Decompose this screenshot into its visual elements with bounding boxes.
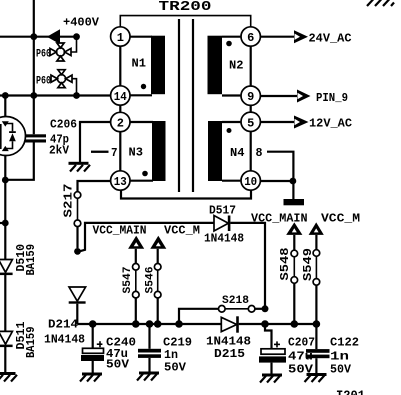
svg-text:D517: D517 bbox=[209, 204, 236, 218]
svg-text:D214: D214 bbox=[48, 318, 78, 332]
svg-text:2: 2 bbox=[117, 117, 124, 131]
node dot bus S548 bbox=[291, 320, 299, 328]
svg-text:N2: N2 bbox=[229, 60, 244, 73]
net arrow PIN_9 bbox=[297, 90, 311, 103]
jumper S548 bbox=[291, 235, 298, 324]
svg-text:8: 8 bbox=[256, 146, 263, 160]
node dot at P60 stub / pin14 row bbox=[73, 92, 80, 99]
wire bottom bus bbox=[77, 323, 320, 325]
wire line B vertical (snubber branch) bbox=[33, 0, 35, 134]
transformer top bracket bbox=[120, 16, 250, 27]
node dot line A at y223 bbox=[2, 220, 9, 227]
ground chassis top-right corner (clipped) bbox=[367, 0, 394, 6]
wire left pin column links bbox=[119, 46, 121, 170]
jumper S217 bbox=[74, 192, 81, 248]
wire P60 test point 2 stub bbox=[72, 79, 77, 96]
wire pin5 to 12V_AC arrow bbox=[260, 121, 294, 123]
net arrow VCC_MAIN (left) bbox=[128, 236, 144, 249]
svg-text:50V: 50V bbox=[164, 361, 187, 375]
pin 1 bbox=[111, 27, 130, 46]
wire pin14 row horizontal bbox=[0, 94, 111, 96]
ground bar (signal ground) bbox=[284, 199, 305, 205]
winding N4 bbox=[208, 121, 222, 181]
wire pin13 to pin10 bottom link bbox=[121, 190, 251, 198]
svg-text:TR200: TR200 bbox=[159, 0, 212, 15]
svg-text:S217: S217 bbox=[62, 184, 76, 218]
capacitor C122 bbox=[306, 324, 330, 373]
net arrow +400V bbox=[47, 29, 60, 44]
svg-text:C207: C207 bbox=[288, 336, 315, 350]
svg-text:+400V: +400V bbox=[63, 16, 100, 30]
capacitor C219 bbox=[138, 324, 161, 372]
wire pin10 to ground node bbox=[260, 180, 293, 182]
svg-text:PIN_9: PIN_9 bbox=[316, 91, 348, 105]
svg-text:P60: P60 bbox=[36, 49, 51, 61]
wire winding N2 to pin6 bbox=[222, 36, 240, 38]
wire +400V rail top bbox=[0, 36, 77, 38]
svg-text:C122: C122 bbox=[330, 336, 359, 350]
svg-text:14: 14 bbox=[114, 90, 127, 104]
node dot bus x265 bbox=[261, 320, 269, 328]
diode D510 bbox=[0, 260, 13, 276]
pin 6 bbox=[241, 27, 260, 46]
wire line A to bottom ground bbox=[4, 347, 6, 372]
svg-text:7: 7 bbox=[111, 146, 118, 160]
pin 5 bbox=[241, 112, 260, 131]
ground chassis bottom-left (clipped) bbox=[0, 372, 17, 382]
svg-text:P60: P60 bbox=[36, 76, 51, 88]
node dot bus C240 bbox=[89, 320, 97, 328]
wire right pin column links bbox=[250, 46, 252, 170]
svg-text:2kV: 2kV bbox=[49, 144, 70, 158]
node dot at line B / pin14 row bbox=[30, 92, 37, 99]
wire winding N4 to pin10 bbox=[222, 180, 240, 182]
transformer core lines bbox=[179, 19, 193, 192]
net arrow VCC_MAIN (right) bbox=[286, 222, 302, 235]
net arrow 24V_AC bbox=[294, 30, 308, 43]
diode D517 bbox=[214, 216, 230, 232]
capacitor C240 electrolytic bbox=[81, 324, 104, 373]
svg-text:C206: C206 bbox=[50, 118, 77, 132]
capacitor C206 bbox=[24, 134, 46, 142]
node dot bus S549 bbox=[313, 320, 321, 328]
svg-text:1: 1 bbox=[117, 31, 124, 45]
svg-text:I201: I201 bbox=[336, 388, 365, 395]
diode D511 bbox=[0, 331, 13, 347]
test point P60 (upper) bbox=[50, 43, 71, 61]
ground chassis (primary, under C206) bbox=[69, 162, 91, 172]
pin 10 bbox=[241, 171, 260, 190]
pin 9 bbox=[241, 86, 260, 105]
svg-text:S218: S218 bbox=[222, 295, 249, 307]
node dot secondary ground bbox=[290, 178, 297, 185]
diode D215 bbox=[221, 316, 239, 332]
svg-text:6: 6 bbox=[247, 31, 254, 45]
wire P60 test point 1 stub bbox=[71, 37, 77, 52]
winding N2 bbox=[208, 36, 223, 94]
ground chassis C240 bbox=[80, 373, 102, 382]
net arrow VCC_M (right) bbox=[309, 222, 324, 235]
svg-text:12V_AC: 12V_AC bbox=[309, 116, 352, 130]
node dot at line A / pin14 row bbox=[2, 92, 9, 99]
node dot x265/S218 bbox=[262, 305, 269, 312]
node dot bus S547 bbox=[132, 320, 140, 328]
node junction dot on 400V rail at line B bbox=[30, 33, 37, 40]
pin 13 bbox=[111, 171, 130, 190]
svg-text:1n: 1n bbox=[330, 350, 349, 364]
svg-text:S547: S547 bbox=[122, 267, 134, 294]
wire pin13 to winding N3 bbox=[130, 180, 153, 182]
svg-text:VCC_M: VCC_M bbox=[164, 224, 200, 238]
wire D517 cathode to x265 vertical bbox=[230, 223, 265, 309]
winding N1 bbox=[151, 36, 165, 94]
net arrow 12V_AC bbox=[294, 116, 309, 129]
svg-text:VCC_MAIN: VCC_MAIN bbox=[93, 224, 147, 238]
capacitor C207 electrolytic bbox=[259, 341, 286, 373]
wire pin6 to 24V_AC arrow bbox=[260, 36, 294, 38]
pin 2 bbox=[111, 112, 130, 131]
svg-text:1N4148: 1N4148 bbox=[44, 333, 85, 347]
wire line A vertical bbox=[4, 96, 6, 260]
svg-text:50V: 50V bbox=[106, 358, 130, 372]
wire winding N4 to pin5 bbox=[222, 121, 240, 123]
diode D214 bbox=[69, 287, 86, 324]
wire pin9 to PIN_9 arrow bbox=[260, 95, 297, 97]
wire pin13 tap to S217 bbox=[78, 181, 111, 192]
jumper S549 bbox=[313, 235, 320, 324]
svg-text:1N4148: 1N4148 bbox=[204, 232, 244, 246]
node junction dot on 400V rail at P60 stub bbox=[73, 33, 80, 40]
node polarity dot N3 bbox=[142, 171, 148, 177]
transistor Q (chopper MOSFET, clipped at left edge) bbox=[0, 117, 26, 156]
wire line B lower + corner to line A bbox=[5, 143, 34, 180]
node polarity dot N4 bbox=[227, 128, 232, 133]
svg-text:9: 9 bbox=[247, 90, 254, 104]
svg-text:10: 10 bbox=[244, 175, 257, 189]
net arrow VCC_M (left) bbox=[150, 236, 166, 249]
test point P60 (lower) bbox=[51, 70, 72, 88]
node dot bus C219 bbox=[146, 320, 154, 328]
node polarity dot N2 bbox=[226, 41, 232, 47]
ground chassis C207 bbox=[260, 374, 282, 383]
svg-text:VCC_MAIN: VCC_MAIN bbox=[251, 211, 308, 225]
wire pin1 to winding N1 bbox=[130, 36, 152, 38]
wire VCC_MAIN rail to D517 bbox=[79, 223, 214, 252]
wire pin14 to winding N1 bbox=[130, 94, 152, 96]
wire pin2 to winding N3 bbox=[130, 121, 153, 123]
jumper S546 bbox=[154, 249, 161, 324]
ground chassis C219 bbox=[137, 372, 159, 381]
svg-text:S546: S546 bbox=[145, 267, 157, 294]
svg-text:BA159: BA159 bbox=[24, 327, 38, 359]
wire winding N2 to pin9 bbox=[222, 94, 240, 96]
wire ground stem bbox=[292, 181, 294, 200]
wire x265 bus to C207 jog bbox=[265, 324, 272, 348]
svg-text:D215: D215 bbox=[214, 347, 245, 361]
svg-text:24V_AC: 24V_AC bbox=[309, 32, 352, 46]
pin 14 bbox=[111, 86, 130, 105]
svg-text:N3: N3 bbox=[129, 147, 144, 160]
svg-text:N1: N1 bbox=[132, 58, 147, 71]
svg-text:VCC_M: VCC_M bbox=[321, 211, 360, 225]
node dot bus S546 bbox=[154, 320, 162, 328]
svg-text:S548: S548 bbox=[278, 248, 292, 281]
svg-text:S549: S549 bbox=[301, 248, 315, 281]
ground chassis C122 bbox=[305, 373, 327, 382]
node polarity dot N1 bbox=[141, 84, 146, 89]
wire y223 stub to left edge bbox=[0, 222, 5, 224]
node dot line A at y180 bbox=[2, 177, 9, 184]
wire pin2 to primary ground bbox=[80, 122, 111, 162]
winding N3 bbox=[152, 121, 166, 181]
wire line A between diodes bbox=[4, 275, 6, 331]
jumper S218 bbox=[179, 306, 265, 325]
svg-text:50V: 50V bbox=[330, 363, 352, 377]
node dot S217/D214/VCC wire bbox=[74, 248, 81, 255]
svg-text:N4: N4 bbox=[230, 147, 245, 160]
node dot bus S218 tap bbox=[175, 320, 183, 328]
jumper S547 bbox=[133, 249, 140, 324]
wire pin8 stub bbox=[267, 152, 293, 181]
svg-text:BA159: BA159 bbox=[24, 244, 38, 276]
svg-text:13: 13 bbox=[114, 175, 127, 189]
svg-text:5: 5 bbox=[247, 116, 254, 130]
label pin 7 dash bbox=[91, 151, 109, 153]
